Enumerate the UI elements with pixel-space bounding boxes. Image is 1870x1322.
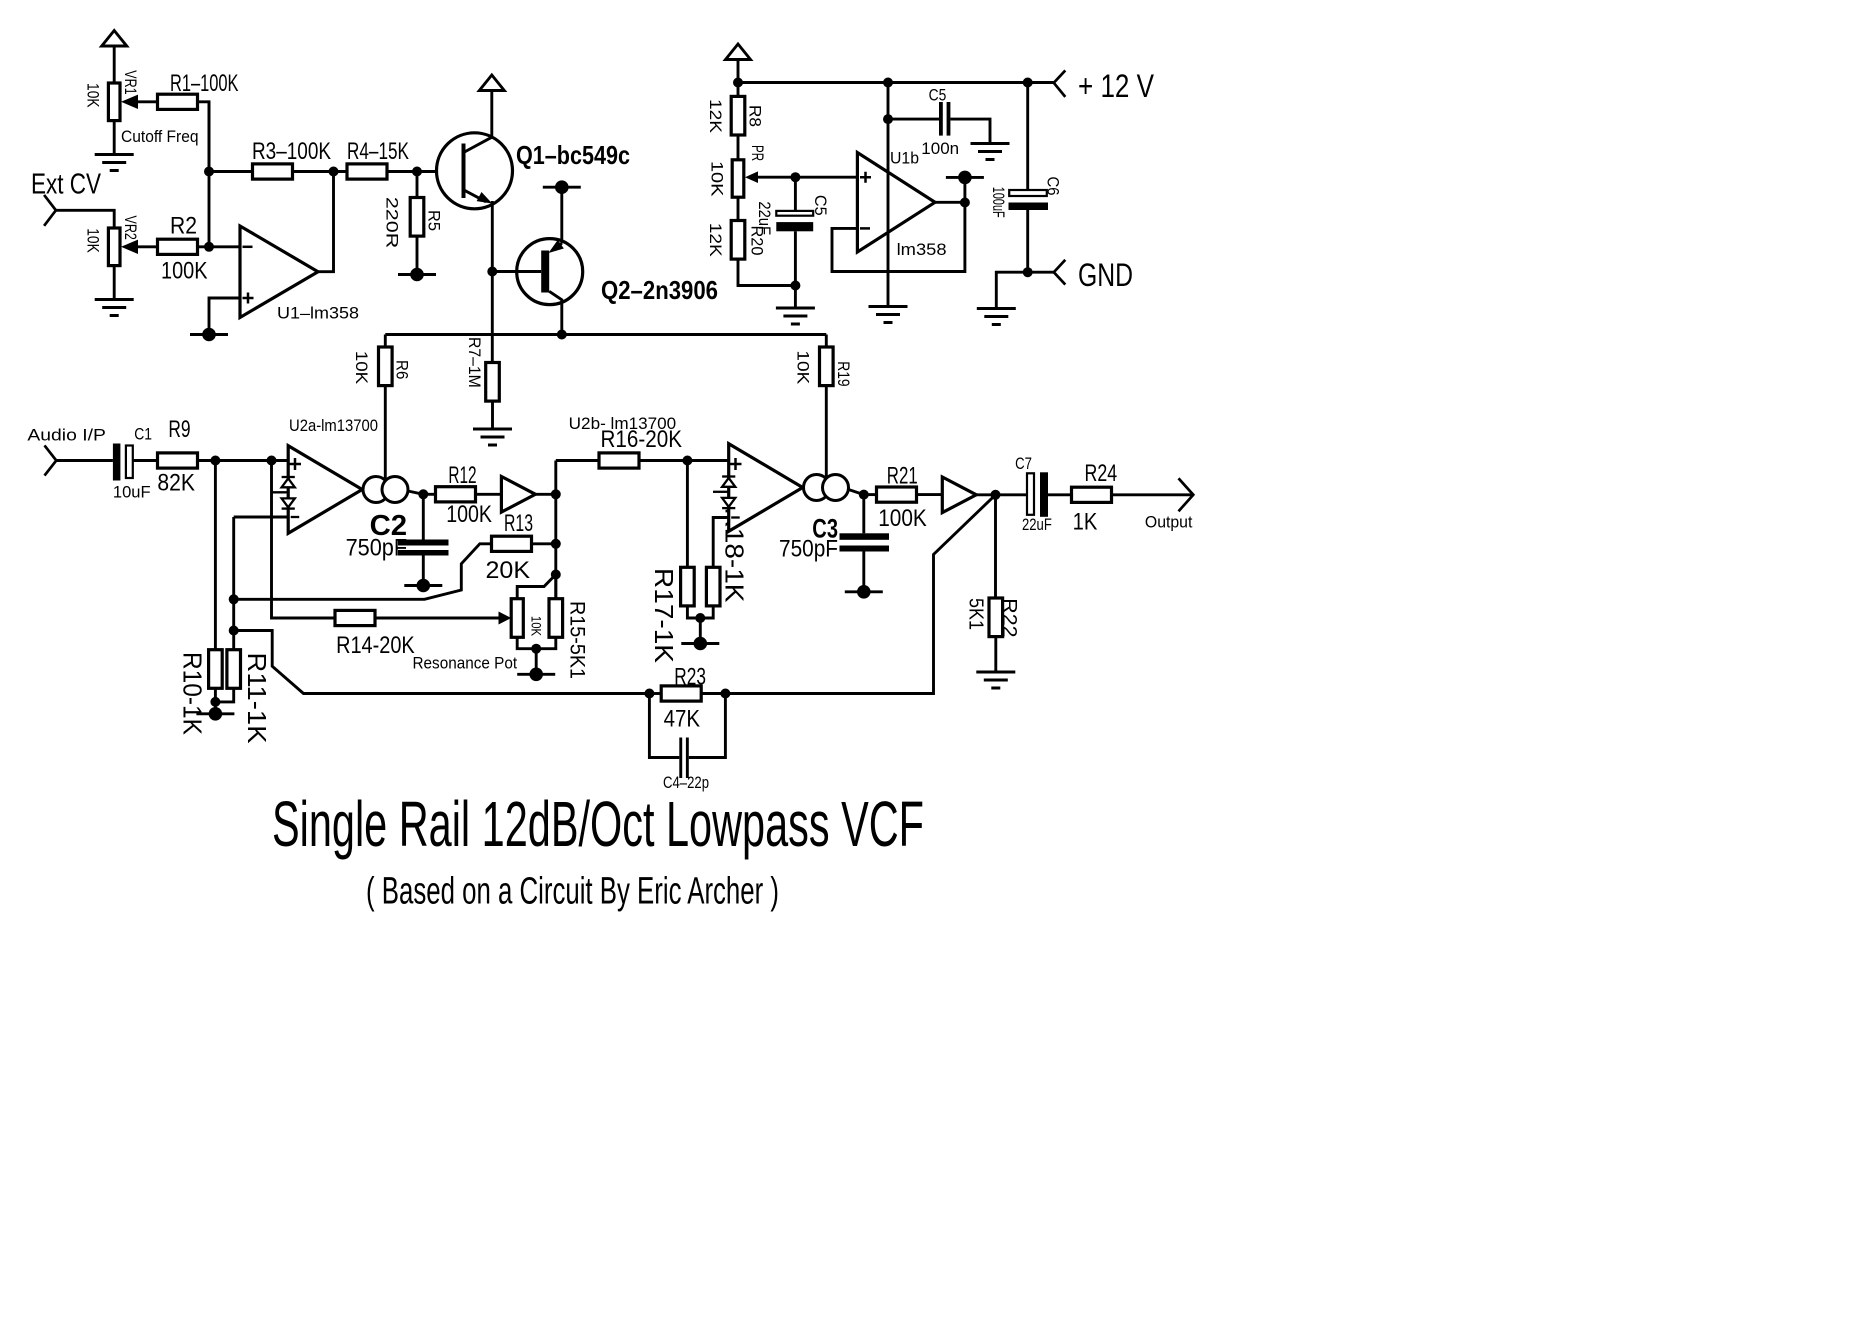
resonance pot wiper: [499, 612, 512, 625]
wire U2b output: [849, 490, 864, 495]
resistor R24 1K: [1072, 460, 1118, 536]
node R23 left: [644, 689, 654, 699]
svg-text:82K: 82K: [157, 470, 195, 497]
node C5 100n branch: [883, 114, 893, 124]
wire node to R12: [423, 493, 435, 496]
wire R17/R18 bottoms join: [687, 606, 713, 640]
node R23 right: [720, 689, 730, 699]
op-amp U1a lm358: [240, 226, 359, 323]
node rail/U1b power: [883, 78, 893, 88]
svg-text:R13: R13: [504, 510, 533, 537]
wire Q1 emitter / Q2 base / R7: [491, 201, 494, 363]
wire pot/R15 bottoms join: [517, 637, 556, 648]
node pot bottom: [531, 644, 541, 654]
vref tap (R17/R18): [681, 637, 719, 651]
vref tap (Q2 emitter): [543, 180, 581, 194]
node minus/599: [229, 594, 239, 604]
svg-text:R11-1K: R11-1K: [242, 653, 272, 745]
OTA U2b lm13700: [569, 414, 849, 531]
svg-text:PR: PR: [748, 145, 767, 161]
svg-text:( Based on a Circuit By Eric A: ( Based on a Circuit By Eric Archer ): [366, 871, 779, 913]
svg-text:VR1: VR1: [121, 70, 140, 94]
resistor R3 100K: [252, 138, 331, 179]
svg-text:R2: R2: [170, 213, 197, 240]
wire R9 node down to R10: [214, 461, 217, 650]
wire buffer2 feedback to R23: [725, 495, 995, 694]
svg-text:U2a-lm13700: U2a-lm13700: [289, 416, 378, 435]
wire U1b feedback loop: [832, 203, 965, 272]
wire R10/R11 bottoms: [215, 688, 233, 710]
wire vertical R1/R3/R2 junction: [208, 102, 211, 247]
svg-text:10uF: 10uF: [113, 483, 151, 502]
wire node to R21: [864, 493, 877, 496]
wire VR2 wiper to R2: [138, 245, 158, 248]
svg-text:47K: 47K: [664, 706, 700, 733]
svg-text:100K: 100K: [878, 505, 927, 532]
ground (R20/C5): [776, 308, 815, 324]
resistor R12 100K: [436, 462, 493, 528]
node PR/C5: [790, 172, 800, 182]
connector Output arrow: [1179, 478, 1194, 511]
svg-text:20K: 20K: [486, 557, 531, 584]
wire U2a - input: [234, 516, 289, 519]
wire R16 to U2b +: [639, 459, 729, 462]
svg-text:10K: 10K: [529, 616, 544, 636]
resistor R23 47K: [649, 664, 725, 733]
svg-text:22uF: 22uF: [755, 201, 774, 235]
svg-text:10K: 10K: [352, 351, 371, 385]
resistor R13 20K: [486, 510, 534, 584]
svg-text:C5: C5: [929, 86, 947, 105]
resistor R17 1K: [649, 567, 694, 663]
wire U1b power pins: [887, 83, 890, 306]
connector GND: [1054, 260, 1066, 285]
wire buffer node vertical: [554, 461, 557, 599]
svg-text:10K: 10K: [708, 161, 727, 197]
wire Ext CV to VR2: [56, 210, 114, 228]
wire VR2 bottom: [113, 266, 116, 299]
wire R14 line: [272, 461, 336, 619]
potentiometer VR1 10K: [84, 70, 140, 120]
resistor R9 82K: [157, 416, 197, 497]
resistor R5 220R: [383, 172, 444, 275]
transistor Q2 2n3906: [492, 187, 718, 334]
wire pot top diagonal: [517, 575, 556, 599]
svg-text:R24: R24: [1085, 460, 1118, 487]
svg-text:1K: 1K: [1073, 509, 1098, 536]
OTA U2a lm13700: [272, 416, 409, 533]
capacitor C5 100n: [888, 86, 990, 159]
node Q1e/Q2b: [487, 267, 497, 277]
wire R9 to U2a +: [198, 459, 289, 462]
svg-text:22uF: 22uF: [1022, 515, 1052, 534]
node R2/U1a-: [204, 242, 214, 252]
svg-text:U1–lm358: U1–lm358: [277, 304, 359, 323]
svg-text:R12: R12: [448, 462, 476, 489]
node U2a out / C2: [418, 489, 428, 499]
resistor R15 5K1: [549, 575, 588, 680]
svg-text:R3–100K: R3–100K: [252, 138, 331, 165]
svg-text:10K: 10K: [84, 83, 103, 108]
svg-text:R15-5K1: R15-5K1: [565, 601, 588, 679]
node R9/R10: [210, 456, 220, 466]
svg-text:100K: 100K: [446, 501, 492, 528]
svg-text:Q1–bc549c: Q1–bc549c: [516, 140, 630, 170]
wire - node down to R11: [232, 517, 235, 650]
capacitor C2 750pF: [346, 494, 449, 582]
svg-text:Ext CV: Ext CV: [31, 169, 102, 201]
resistor R4 15K: [347, 138, 409, 179]
resistor R19 10K: [794, 335, 854, 481]
wire U1a + input to vref tap: [209, 298, 240, 335]
capacitor C3 750pF: [779, 495, 889, 588]
wire GND to ground: [996, 272, 1027, 307]
wire R14 to wiper: [375, 617, 499, 620]
wire R17 from R16 node: [686, 461, 689, 568]
svg-text:R21: R21: [887, 463, 918, 490]
wire buffer out to node: [535, 493, 555, 496]
wire U2a output: [408, 491, 423, 494]
power symbol (VR1 top): [102, 31, 127, 84]
vref tap (R10/R11): [196, 707, 234, 721]
node rail/R8: [733, 78, 743, 88]
ground (U1b V-): [869, 307, 908, 323]
svg-text:VR2: VR2: [121, 216, 140, 240]
svg-text:R10-1K: R10-1K: [178, 652, 208, 736]
svg-text:12K: 12K: [706, 99, 725, 134]
wire C6 to GND connector: [1028, 271, 1054, 274]
wire feedback bus to R23: [234, 631, 650, 694]
wire input to C1: [56, 459, 113, 462]
svg-text:R1–100K: R1–100K: [170, 70, 239, 97]
wire U2a - node to R13: [234, 544, 492, 600]
svg-text:R23: R23: [674, 664, 706, 691]
potentiometer PR 10K: [708, 145, 767, 197]
potentiometer VR2 10K: [84, 216, 140, 266]
svg-text:Cutoff Freq: Cutoff Freq: [121, 127, 199, 146]
node R16/R17: [682, 456, 692, 466]
connector Ext CV input: [44, 195, 56, 226]
node buffer2 out: [991, 490, 1001, 500]
node pot top: [551, 570, 561, 580]
wire to R16: [556, 459, 599, 462]
capacitor C4 22p: [649, 694, 725, 793]
ground (VR2): [95, 300, 134, 316]
wire R3 to R4: [293, 170, 348, 173]
ground (C5 100n): [971, 144, 1010, 160]
wire R2 to inverting input: [198, 245, 241, 248]
node R14 branch: [267, 456, 277, 466]
wire buffer2 out: [976, 493, 1027, 496]
op-amp U1b lm358: [857, 149, 946, 260]
ground (VR1): [95, 155, 134, 171]
ground (R22): [976, 672, 1015, 688]
svg-text:C6: C6: [1044, 177, 1063, 196]
capacitor C7 22uF: [1015, 454, 1052, 534]
wire R12 to buffer: [476, 493, 502, 496]
svg-text:R7–1M: R7–1M: [465, 337, 484, 388]
vref tap (C2 bottom): [404, 579, 442, 593]
node feedback/R3/R4: [329, 167, 339, 177]
node U2b out / C3: [859, 490, 869, 500]
wire C1 to R9: [133, 459, 158, 462]
resistor R16 20K: [599, 426, 682, 468]
resistor R7 1M: [465, 337, 500, 428]
wire VR1 bottom: [113, 121, 116, 154]
svg-text:Q2–2n3906: Q2–2n3906: [601, 275, 718, 305]
resistor R21 100K: [877, 463, 927, 533]
vref tap (C3 bottom): [845, 585, 883, 599]
wire U1b output: [935, 177, 965, 202]
node R17/R18 join: [695, 613, 705, 623]
resistor R10 1K: [178, 650, 223, 736]
resistor R22 5K1: [965, 495, 1021, 671]
svg-text:GND: GND: [1078, 257, 1133, 293]
svg-text:100K: 100K: [161, 258, 208, 285]
wire bias rail: [385, 333, 826, 336]
transistor Q1 bc549c: [437, 91, 631, 209]
svg-text:R14-20K: R14-20K: [336, 632, 415, 659]
resistor R11 1K: [227, 650, 272, 744]
buffer amp (stage 2): [942, 477, 976, 513]
resistor R2 100K: [158, 213, 208, 285]
wire R21 to buffer: [917, 493, 943, 496]
node buffer1 out: [551, 489, 561, 499]
svg-text:R8: R8: [745, 105, 764, 127]
vref tap (resonance pot): [517, 668, 555, 682]
node R13/vertical: [551, 539, 561, 549]
capacitor C6 100uF: [989, 83, 1063, 273]
vref tap (U1a +): [190, 328, 228, 342]
svg-text:R5: R5: [424, 210, 443, 231]
resistor R1 100K: [158, 70, 239, 109]
node R10/R11 join: [210, 697, 220, 707]
svg-text:Single Rail 12dB/Oct Lowpass V: Single Rail 12dB/Oct Lowpass VCF: [272, 788, 924, 860]
node Q2 collector on rail: [557, 330, 567, 340]
svg-text:R9: R9: [168, 416, 190, 443]
resistor R8 12K: [706, 83, 765, 160]
svg-text:lm358: lm358: [897, 240, 947, 259]
resistor R18 1K: [706, 508, 749, 606]
power symbol (Q1 collector): [479, 75, 504, 91]
svg-text:Audio I/P: Audio I/P: [27, 426, 106, 445]
vref tap (U1b output): [946, 171, 984, 185]
power symbol (reference section): [726, 44, 751, 83]
node R4/R5: [412, 167, 422, 177]
node R20/C5 gnd: [790, 281, 800, 291]
svg-text:C1: C1: [134, 425, 152, 444]
svg-text:100n: 100n: [921, 139, 959, 158]
ground (R7): [473, 429, 512, 445]
wire R24 to output: [1112, 493, 1194, 496]
wire C7 to R24: [1048, 493, 1072, 496]
svg-text:12K: 12K: [706, 223, 725, 258]
resonance pot body 10K: [413, 599, 544, 673]
node U1b output: [960, 198, 970, 208]
svg-text:R4–15K: R4–15K: [347, 138, 409, 165]
connector +12V: [1054, 70, 1066, 97]
wire R4 to Q1 base: [387, 170, 464, 173]
wire +12V rail: [738, 81, 1054, 84]
svg-text:R19: R19: [834, 361, 853, 386]
svg-text:U2b- lm13700: U2b- lm13700: [569, 414, 677, 433]
svg-text:Resonance Pot: Resonance Pot: [413, 654, 518, 673]
svg-text:+ 12 V: + 12 V: [1078, 68, 1155, 104]
vref tap (R5 bottom): [398, 268, 436, 282]
capacitor C5 22uF: [755, 177, 830, 285]
wire node to R3: [209, 170, 253, 173]
svg-text:10K: 10K: [84, 228, 103, 253]
node rail/C6: [1023, 78, 1033, 88]
svg-text:100uF: 100uF: [989, 187, 1008, 218]
connector Audio input: [45, 445, 57, 475]
buffer amp (stage 1): [501, 477, 535, 513]
wire R1 to R3 node: [198, 102, 210, 172]
svg-text:220R: 220R: [383, 197, 402, 248]
wire U1a output feedback to R3/R4 node: [318, 172, 334, 272]
resistor R20 12K: [706, 197, 796, 307]
svg-text:750pF: 750pF: [779, 536, 838, 563]
svg-text:750pF: 750pF: [346, 535, 408, 562]
node R3 left: [204, 167, 214, 177]
wire R13 to vertical: [532, 542, 556, 545]
resistor R6 10K: [352, 335, 411, 482]
capacitor C1 10uF: [113, 425, 152, 502]
svg-text:R22: R22: [998, 598, 1020, 637]
svg-text:10K: 10K: [794, 350, 813, 385]
ground (GND rail): [977, 309, 1016, 325]
resistor R14 20K: [335, 610, 415, 659]
node C6/GND: [1023, 267, 1033, 277]
svg-text:5K1: 5K1: [965, 598, 987, 630]
wire PR wiper to U1b +: [758, 176, 857, 179]
svg-text:C7: C7: [1015, 454, 1032, 473]
svg-text:R6: R6: [392, 360, 411, 379]
node y630 branch: [229, 626, 239, 636]
svg-text:Output: Output: [1145, 513, 1193, 532]
svg-text:C5: C5: [811, 195, 830, 216]
wire to tap: [535, 649, 538, 671]
wire VR1 wiper to R1: [138, 100, 158, 103]
svg-text:R17-1K: R17-1K: [649, 568, 679, 664]
svg-text:U1b: U1b: [890, 149, 919, 168]
